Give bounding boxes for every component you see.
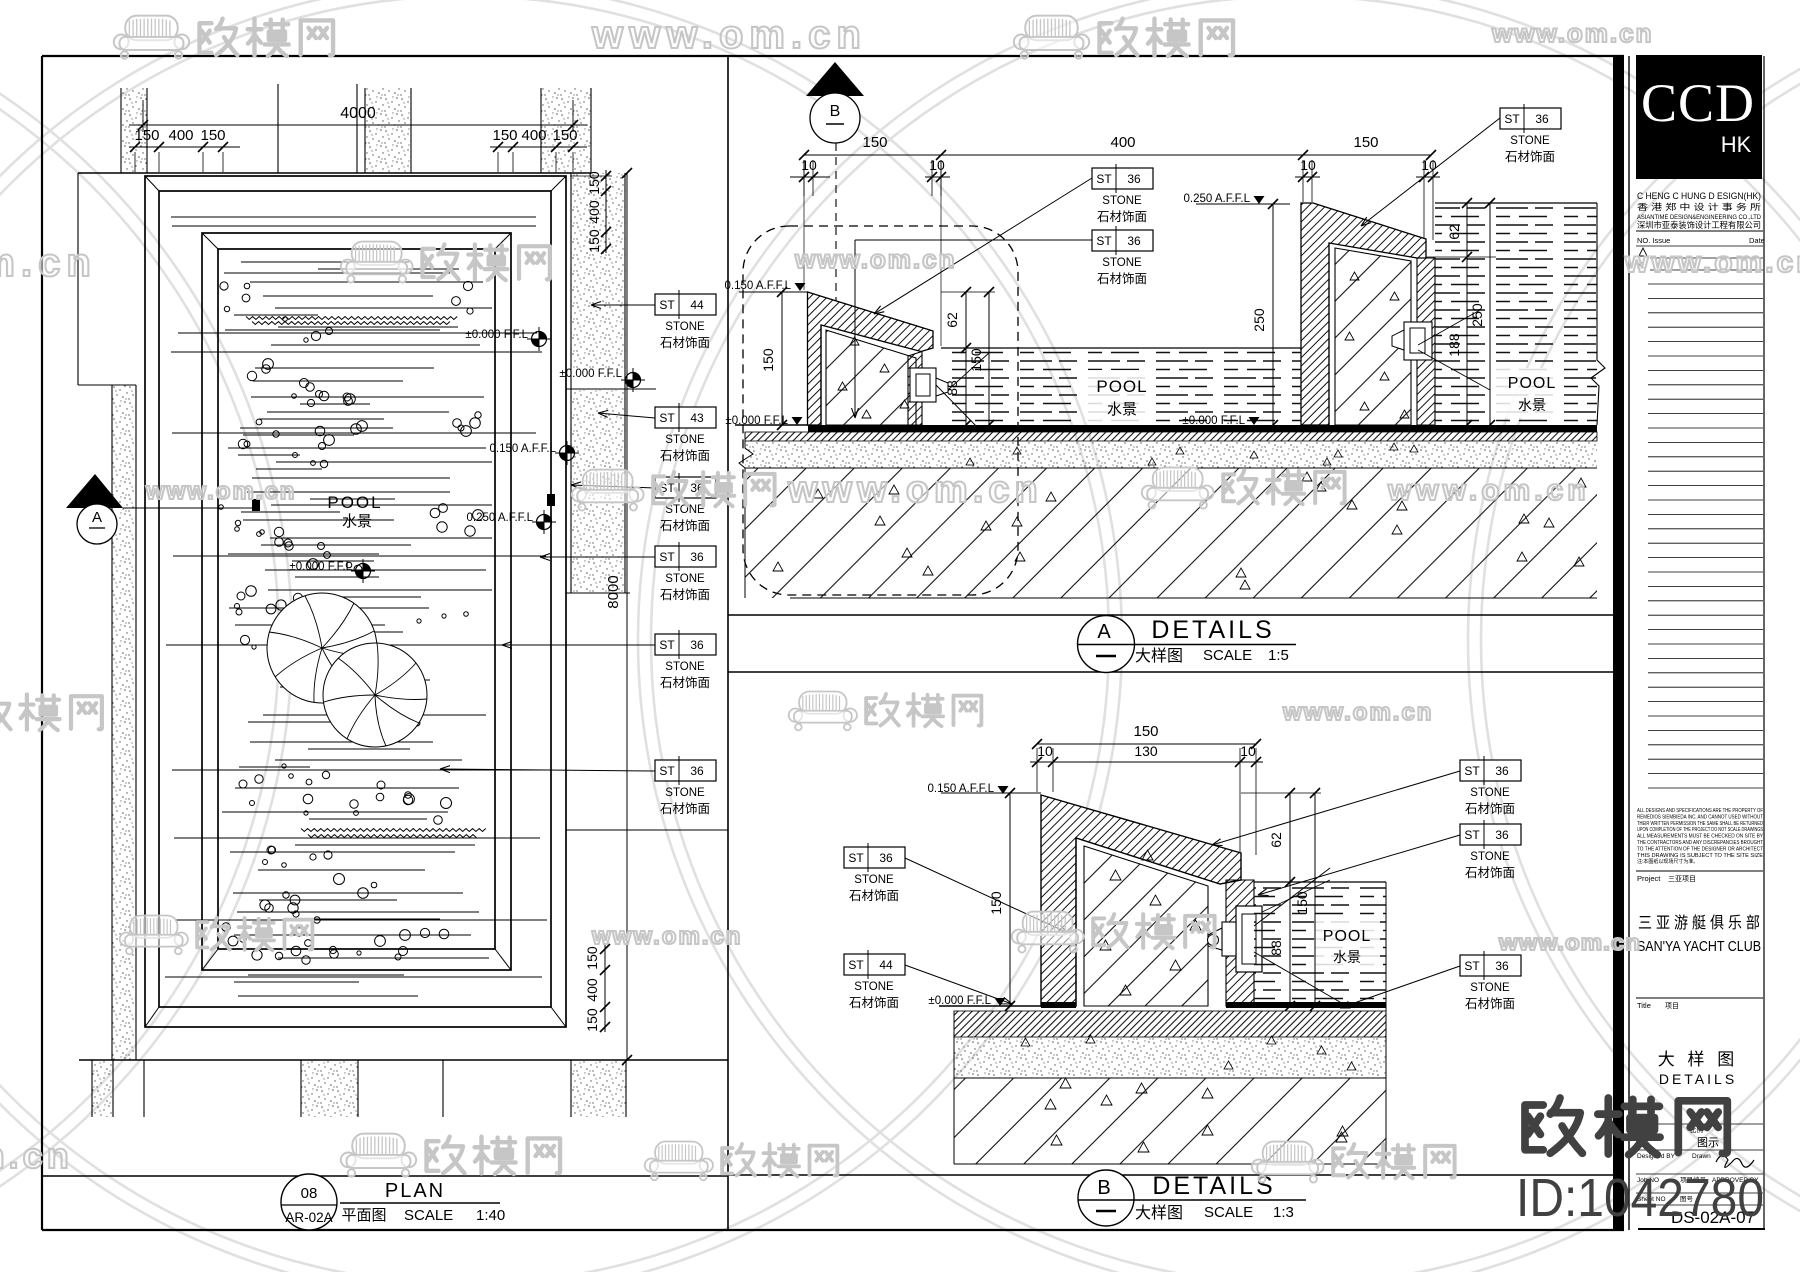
svg-text:www.om.cn: www.om.cn (591, 923, 742, 950)
svg-text:A: A (1097, 621, 1111, 643)
svg-text:NO. Issue: NO. Issue (1637, 236, 1670, 245)
svg-text:STONE: STONE (665, 573, 705, 585)
svg-text:Title: Title (1637, 1001, 1651, 1010)
svg-text:150: 150 (1294, 891, 1310, 915)
svg-text:THEIR WRITTEN PERMISSION THE S: THEIR WRITTEN PERMISSION THE SAME SHALL … (1637, 821, 1763, 827)
svg-text:±0.000 F.F.L: ±0.000 F.F.L (928, 995, 991, 1007)
detail B: ground (939, 1005, 1041, 1007)
svg-text:www.om.cn: www.om.cn (145, 478, 296, 505)
svg-text:三亚项目: 三亚项目 (1668, 875, 1696, 883)
svg-text:水景: 水景 (1107, 401, 1137, 418)
detail B: left 150 dim (1009, 793, 1011, 1006)
svg-text:石材饰面: 石材饰面 (1465, 802, 1515, 816)
svg-text:POOL: POOL (1508, 375, 1556, 392)
plan: rim mitre corners (145, 176, 159, 191)
svg-text:36: 36 (690, 764, 704, 778)
svg-text:400: 400 (584, 978, 600, 1002)
svg-text:STONE: STONE (1102, 257, 1142, 269)
detail A: right coping (1301, 203, 1435, 425)
svg-text:Drawn: Drawn (1692, 1153, 1711, 1160)
detail A: left pool water (941, 348, 1301, 425)
svg-text:ST: ST (659, 638, 675, 652)
svg-text:62: 62 (944, 312, 960, 328)
svg-text:PLAN: PLAN (385, 1180, 445, 1202)
plan: top dimension 4000 (129, 124, 587, 126)
detail A: right pool water (1435, 203, 1597, 425)
svg-text:三 亚 游 艇 俱 乐 部: 三 亚 游 艇 俱 乐 部 (1638, 914, 1760, 932)
svg-text:CCD: CCD (1641, 73, 1755, 133)
svg-text:188: 188 (1446, 333, 1462, 357)
drawing frame border (41, 56, 43, 1230)
big site watermark (1525, 1098, 1727, 1155)
plan: 8000 dim (626, 173, 628, 1060)
svg-text:0.150 A.F.F.L: 0.150 A.F.F.L (490, 443, 557, 455)
svg-text:±0.000 F.F.L: ±0.000 F.F.L (559, 368, 622, 380)
stone tag ST 36 with leader (655, 630, 716, 690)
plan: plant (267, 593, 377, 703)
detail B: under-slab bands (954, 1037, 1386, 1078)
svg-text:www.om.cn: www.om.cn (1498, 930, 1641, 955)
svg-text:400: 400 (1110, 134, 1135, 151)
svg-text:AR-02A: AR-02A (285, 1210, 332, 1225)
stone tag ST 36 with leader (655, 542, 716, 602)
svg-text:水景: 水景 (342, 513, 372, 530)
svg-text:ST: ST (1464, 959, 1480, 973)
svg-text:REMEDIOS SIEMBIEDA INC. AND: REMEDIOS SIEMBIEDA INC. AND CANNOT USED … (1637, 814, 1763, 820)
svg-text:注:本图纸以现场尺寸为准。: 注:本图纸以现场尺寸为准。 (1637, 858, 1698, 865)
detail A: right nozzle (1404, 322, 1432, 360)
svg-text:1:3: 1:3 (1273, 1204, 1294, 1221)
svg-text:STONE: STONE (665, 661, 705, 673)
detail B: ST tags right (1460, 756, 1521, 816)
svg-text:石材饰面: 石材饰面 (660, 449, 710, 463)
svg-text:10: 10 (1421, 157, 1437, 173)
svg-text:石材饰面: 石材饰面 (660, 336, 710, 350)
svg-text:10: 10 (1300, 157, 1316, 173)
svg-text:10: 10 (801, 157, 817, 173)
detail A: 250 dim mid (1272, 204, 1274, 425)
svg-text:ST: ST (848, 958, 864, 972)
svg-text:±0.000 F.F.L: ±0.000 F.F.L (725, 415, 788, 427)
svg-text:STONE: STONE (1470, 851, 1510, 863)
detail A: left nozzle (910, 368, 936, 402)
svg-text:石材饰面: 石材饰面 (1465, 866, 1515, 880)
svg-text:ST: ST (659, 298, 675, 312)
detail B: right dims 62/88/150 (1289, 793, 1291, 1006)
B bottom separator (728, 1174, 1613, 1176)
svg-text:36: 36 (1495, 828, 1509, 842)
plan: bubbles (220, 282, 228, 290)
svg-text:±0.000 F.F.L: ±0.000 F.F.L (289, 561, 352, 573)
svg-text:深圳市亚泰装饰设计工程有限公司: 深圳市亚泰装饰设计工程有限公司 (1637, 220, 1761, 230)
wall column top 1 (121, 88, 147, 173)
svg-text:石材饰面: 石材饰面 (1097, 272, 1147, 286)
svg-text:www.om.cn: www.om.cn (1282, 699, 1433, 726)
svg-text:150: 150 (586, 171, 602, 195)
svg-text:STONE: STONE (665, 787, 705, 799)
right thick bar (1613, 56, 1624, 1230)
svg-text:0.250 A.F.F.L: 0.250 A.F.F.L (467, 512, 534, 524)
title block: ruled lines (1648, 283, 1763, 285)
svg-text:ID:1042780: ID:1042780 (1516, 1168, 1764, 1228)
svg-text:B: B (830, 103, 841, 120)
svg-text:10: 10 (929, 157, 945, 173)
svg-text:08: 08 (301, 1185, 318, 1202)
svg-text:石材饰面: 石材饰面 (660, 802, 710, 816)
detail B: water (1254, 882, 1386, 1006)
svg-text:香 港 郑 中 设 计 事 务 所: 香 港 郑 中 设 计 事 务 所 (1637, 201, 1762, 212)
detail B: right stone plate (1226, 880, 1254, 1006)
svg-text:www.om.cn: www.om.cn (1491, 18, 1654, 48)
svg-text:250: 250 (1469, 303, 1485, 327)
svg-text:A: A (92, 509, 102, 526)
svg-text:44: 44 (690, 298, 704, 312)
svg-text:0.250 A.F.F.L: 0.250 A.F.F.L (1184, 193, 1251, 205)
svg-text:ALL DESIGNS AND SPECIFICATIONS: ALL DESIGNS AND SPECIFICATIONS ARE THE P… (1637, 808, 1763, 814)
svg-text:8000: 8000 (605, 575, 622, 608)
detail A: POOL label right (1495, 368, 1561, 418)
pool rim rectangle R3 (202, 233, 511, 970)
plan: bottom ground line (79, 1059, 728, 1061)
svg-text:STONE: STONE (665, 434, 705, 446)
title block: lower table (1636, 1123, 1763, 1125)
svg-text:44: 44 (879, 958, 893, 972)
svg-text:石材饰面: 石材饰面 (660, 588, 710, 602)
svg-text:36: 36 (1127, 234, 1141, 248)
detail B: nozzle (1236, 906, 1262, 972)
svg-text:SCALE: SCALE (1203, 647, 1252, 664)
svg-text:水景: 水景 (1333, 949, 1361, 965)
detail A: title (1078, 616, 1135, 673)
region divider (727, 56, 729, 1230)
svg-text:图示: 图示 (1697, 1136, 1719, 1149)
detail A: left break (739, 432, 753, 598)
pool rim rectangle R4 (218, 249, 495, 949)
A/B separator band (728, 614, 1613, 616)
plan: top sub dims 150 400 150 (129, 146, 240, 148)
svg-text:石材饰面: 石材饰面 (1097, 210, 1147, 224)
svg-text:STONE: STONE (1470, 982, 1510, 994)
svg-text:HK: HK (1721, 132, 1752, 157)
svg-text:STONE: STONE (1510, 135, 1550, 147)
svg-text:36: 36 (690, 638, 704, 652)
svg-text:SCALE: SCALE (404, 1207, 453, 1224)
pool rim rectangle R2 (159, 191, 551, 1007)
svg-text:150: 150 (584, 1008, 600, 1032)
svg-text:DETAILS: DETAILS (1659, 1071, 1737, 1087)
watermark layer (114, 16, 333, 59)
svg-text:1:5: 1:5 (1268, 647, 1289, 664)
detail B: top dims (1037, 743, 1256, 745)
svg-text:SCALE: SCALE (1204, 1204, 1253, 1221)
svg-text:ST: ST (1096, 172, 1112, 186)
svg-text:石材饰面: 石材饰面 (849, 996, 899, 1010)
detail B: ST tags left (844, 843, 905, 903)
wall column top 3 (541, 88, 591, 173)
B cut dashed line (835, 143, 837, 425)
svg-text:150: 150 (760, 348, 776, 372)
wall column top 2 (365, 88, 411, 173)
svg-text:STONE: STONE (1102, 195, 1142, 207)
pool rim rectangle R1 (145, 176, 566, 1027)
svg-text:10: 10 (1037, 743, 1053, 759)
svg-text:石材饰面: 石材饰面 (660, 676, 710, 690)
svg-text:www.om.cn: www.om.cn (1387, 474, 1590, 507)
svg-text:STONE: STONE (854, 874, 894, 886)
svg-text:B: B (1097, 1177, 1110, 1199)
wall column bottom 3 (571, 1060, 626, 1117)
svg-text:石材饰面: 石材饰面 (849, 889, 899, 903)
svg-text:C HENG C HUNG D ESIGN(HK): C HENG C HUNG D ESIGN(HK) (1637, 191, 1761, 201)
detail B: title (1078, 1170, 1134, 1226)
svg-text:水景: 水景 (1518, 397, 1546, 413)
title block: CCD logo (1636, 55, 1762, 179)
svg-text:250: 250 (1251, 308, 1267, 332)
detail A: ground and slab (735, 424, 808, 426)
svg-text:1:40: 1:40 (476, 1207, 505, 1224)
svg-text:ST: ST (659, 550, 675, 564)
svg-text:ST: ST (659, 411, 675, 425)
detail A: left 150 dim (781, 292, 783, 425)
svg-text:ST: ST (1096, 234, 1112, 248)
wall column bottom 1 (92, 1060, 113, 1117)
svg-text:400: 400 (586, 200, 602, 224)
detail B: coping (1041, 795, 1241, 1006)
svg-text:150: 150 (1353, 134, 1378, 151)
plan: section marker A (66, 474, 123, 508)
svg-text:±0.000 F.F.L: ±0.000 F.F.L (1182, 415, 1245, 427)
stone tag ST 36 with leader (655, 473, 716, 533)
plan title (281, 1174, 337, 1230)
stone tag ST 44 with leader (655, 290, 716, 350)
detail A: left coping core (826, 330, 916, 425)
svg-text:Project: Project (1637, 874, 1661, 883)
svg-text:62: 62 (1268, 832, 1284, 848)
svg-text:STONE: STONE (665, 321, 705, 333)
svg-text:石材饰面: 石材饰面 (1465, 997, 1515, 1011)
svg-text:UPON COMPLETION OF THE PROJECT: UPON COMPLETION OF THE PROJECT DO NOT SC… (1637, 827, 1764, 833)
svg-text:88: 88 (944, 380, 960, 396)
svg-text:130: 130 (1134, 743, 1158, 759)
svg-text:大样图: 大样图 (1135, 1204, 1183, 1222)
detail A: 62/88/150 dims (965, 292, 967, 425)
svg-text:150: 150 (862, 134, 887, 151)
svg-text:0.150 A.F.F.L: 0.150 A.F.F.L (725, 280, 792, 292)
svg-text:大 样 图: 大 样 图 (1658, 1050, 1738, 1069)
detail A: dashed boundary (743, 226, 1018, 595)
svg-text:4000: 4000 (340, 105, 376, 122)
plan: top ground line (78, 172, 591, 174)
svg-text:88: 88 (1268, 940, 1284, 956)
svg-text:ST: ST (659, 764, 675, 778)
wall column bottom 2 (301, 1060, 358, 1117)
svg-text:36: 36 (690, 550, 704, 564)
svg-text:STONE: STONE (854, 981, 894, 993)
svg-text:10: 10 (1240, 743, 1256, 759)
stone tag ST 36 with leader (655, 756, 716, 816)
plan: left wall (77, 173, 79, 385)
svg-text:62: 62 (1446, 224, 1462, 240)
title block: signature (1716, 1155, 1754, 1167)
svg-text:ST: ST (1464, 764, 1480, 778)
svg-text:TO THE ATTENTION OF THE DESIGN: TO THE ATTENTION OF THE DESIGNER OR ARCH… (1637, 846, 1763, 852)
svg-text:36: 36 (1535, 112, 1549, 126)
detail A: right dims 62/188/250 (1466, 203, 1468, 425)
svg-text:STONE: STONE (665, 504, 705, 516)
svg-text:150: 150 (1133, 723, 1158, 740)
svg-text:ST: ST (1464, 828, 1480, 842)
svg-text:项目: 项目 (1665, 1002, 1679, 1010)
svg-text:POOL: POOL (327, 493, 382, 512)
svg-text:36: 36 (1127, 172, 1141, 186)
stone tag ST 43 with leader (655, 403, 716, 463)
svg-text:STONE: STONE (1470, 787, 1510, 799)
svg-text:400: 400 (521, 127, 546, 144)
plan: right vert dims 150 400 150 top (605, 170, 607, 253)
detail A: right water break edge (1591, 203, 1605, 425)
svg-text:36: 36 (1495, 764, 1509, 778)
svg-text:150: 150 (552, 127, 577, 144)
svg-text:石材饰面: 石材饰面 (660, 519, 710, 533)
svg-text:Date: Date (1749, 236, 1765, 245)
detail A: POOL label left (1085, 370, 1153, 422)
svg-text:ALL MEASUREMENTS MUST BE CHEC: ALL MEASUREMENTS MUST BE CHECKED ON SITE… (1637, 834, 1764, 840)
svg-text:ST: ST (1504, 112, 1520, 126)
svg-text:150: 150 (134, 127, 159, 144)
svg-text:www.om.cn: www.om.cn (1624, 246, 1800, 279)
svg-text:石材饰面: 石材饰面 (1505, 150, 1555, 164)
svg-text:ST: ST (848, 851, 864, 865)
svg-text:www.om.cn: www.om.cn (794, 244, 957, 274)
svg-text:DETAILS: DETAILS (1151, 616, 1274, 644)
plan: right vert dims bottom (604, 944, 606, 1032)
plan: right wall (571, 173, 625, 369)
svg-text:150: 150 (200, 127, 225, 144)
plan: wavy lines (246, 317, 457, 320)
PLAN band line (42, 1175, 728, 1177)
section marker B (806, 62, 864, 96)
svg-text:www.om.cn: www.om.cn (0, 241, 97, 285)
svg-text:150: 150 (968, 348, 984, 372)
svg-text:36: 36 (1495, 959, 1509, 973)
plan: water streak lines (171, 216, 536, 218)
detail A: left coping (808, 292, 934, 425)
svg-text:36: 36 (879, 851, 893, 865)
detail A: ST tags (1092, 164, 1153, 224)
svg-text:43: 43 (690, 411, 704, 425)
svg-text:THE CONTRACTORS AND ANY DISCRE: THE CONTRACTORS AND ANY DISCREPANCIES BR… (1637, 840, 1763, 846)
detail B: coping core (1084, 846, 1208, 1006)
svg-text:DETAILS: DETAILS (1152, 1172, 1275, 1200)
svg-text:www.om.cn: www.om.cn (787, 469, 1043, 511)
svg-text:THIS DRAWING IS SUBJECT TO: THIS DRAWING IS SUBJECT TO THE SITE SIZE (1637, 853, 1764, 859)
svg-text:大样图: 大样图 (1135, 647, 1183, 665)
detail A: top dims (804, 154, 1431, 156)
svg-text:www.om.cn: www.om.cn (0, 1135, 73, 1176)
svg-text:150: 150 (492, 127, 517, 144)
svg-text:POOL: POOL (1323, 928, 1371, 945)
svg-text:POOL: POOL (1096, 377, 1147, 396)
giant watermark arcs (0, 0, 1109, 1277)
svg-text:150: 150 (586, 229, 602, 253)
svg-text:www.om.cn: www.om.cn (591, 13, 867, 57)
svg-text:400: 400 (168, 127, 193, 144)
svg-text:平面图: 平面图 (341, 1207, 386, 1224)
svg-text:±0.000 F.F.L: ±0.000 F.F.L (465, 329, 528, 341)
svg-text:SAN'YA YACHT CLUB: SAN'YA YACHT CLUB (1637, 939, 1761, 955)
